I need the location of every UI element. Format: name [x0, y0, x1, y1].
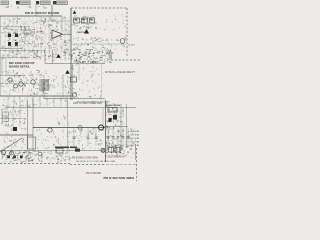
- svg-text:PW IF SECTION 4WD3: PW IF SECTION 4WD3: [104, 176, 135, 180]
- electrolytic capacitor C12: [15, 34, 18, 38]
- bottom cluster left: [1, 150, 37, 163]
- dark blob row 1: [7, 156, 10, 159]
- dashed separator bottom center: [70, 164, 105, 166]
- svg-text:L601 4WD3 TUNER B+ ADJ C60: L601 4WD3 TUNER B+ ADJ C605: [76, 101, 110, 104]
- svg-text:C602 10M: C602 10M: [130, 131, 140, 133]
- transistor Q12: [19, 82, 23, 86]
- svg-text:TP601 ADJ 10.7 MHZ IF: TP601 ADJ 10.7 MHZ IF: [75, 61, 99, 64]
- svg-text:C632 10M: C632 10M: [130, 142, 140, 144]
- svg-text:PW IF CIRCUIT BOARD: PW IF CIRCUIT BOARD: [25, 11, 60, 15]
- transistor Q31: [10, 151, 14, 155]
- paper grain speckle: [0, 0, 139, 199]
- wire vertical x63 low: [62, 75, 64, 98]
- wire horizontal y75: [0, 75, 25, 77]
- wire horizontal y107: [5, 107, 136, 109]
- box R1: [109, 148, 114, 153]
- thermistor RT901 blob: [75, 149, 80, 152]
- IC block box: [24, 30, 31, 34]
- connector header box CN1: [1, 1, 9, 5]
- motor M1 circle: [2, 151, 6, 155]
- wire vertical x44 low: [43, 75, 45, 96]
- section border wire x=71: [70, 8, 72, 100]
- choke coil dark blob: [13, 127, 17, 131]
- wire horizontal y98.5: [44, 96, 105, 99]
- part number text row right column: [106, 104, 121, 107]
- connector ring J2: [99, 125, 104, 130]
- warning triangle 4: [65, 70, 69, 74]
- wire horizontal y57.5: [0, 57, 30, 59]
- caption text small right: [105, 156, 125, 159]
- transistor Q14b: [14, 84, 18, 88]
- warning triangle 2: [84, 29, 89, 34]
- svg-text:CAUTION: CAUTION: [77, 31, 87, 34]
- text area clearing: [8, 60, 39, 69]
- right border vertical solid: [135, 144, 137, 160]
- wire horizontal y50.5: [0, 50, 44, 52]
- sparse cluster left mid-band: [1, 100, 26, 133]
- transistor Q11: [8, 78, 12, 82]
- board title text PW IF CIRCUIT BOARD: [25, 11, 60, 15]
- caption text small left: [72, 157, 99, 160]
- wire horizontal y63: [45, 63, 105, 65]
- transistor Q3: [120, 39, 125, 44]
- sparse cluster right-center low: [71, 64, 104, 99]
- wire op-amp output: [63, 33, 72, 35]
- dark dash component 1: [55, 147, 69, 149]
- main signal wire y127.5: [33, 127, 105, 129]
- annotation text line 1: [9, 61, 35, 65]
- op-amp U1: [52, 30, 63, 39]
- drop wires below main line: [74, 128, 96, 146]
- sparse cluster center low: [48, 75, 71, 95]
- title text PW IF SECTION 4WD3: [104, 176, 135, 180]
- caution text smudge: [77, 31, 87, 34]
- electrolytic capacitor C11: [8, 34, 11, 38]
- tiny text above mid line: [73, 103, 103, 105]
- bottom long wire left: [0, 150, 70, 152]
- component cluster right-top sparse: [97, 15, 126, 31]
- dashed section boundary top: [71, 7, 127, 9]
- test point text row: [75, 61, 99, 64]
- transformer hatched block: [40, 79, 48, 91]
- left board edge wire: [0, 16, 2, 96]
- dark dash component 2: [70, 147, 77, 149]
- transistor Q21: [48, 128, 52, 132]
- svg-text:NOTE: B+ LINE ADJ REF PT: NOTE: B+ LINE ADJ REF PT: [105, 71, 136, 74]
- svg-text:+B 12V: +B 12V: [128, 45, 136, 47]
- capacitor plate marks: [107, 137, 130, 139]
- drop wires y96-107: [8, 97, 67, 108]
- diagonal wire bottom-left: [0, 138, 22, 152]
- svg-text:BOARD DETAIL: BOARD DETAIL: [9, 64, 30, 68]
- component cluster mid dense: [71, 49, 112, 64]
- svg-text:C612 10M: C612 10M: [130, 135, 140, 137]
- wire vertical x62 into op-amp: [61, 16, 63, 30]
- caption text mid right: [86, 172, 102, 175]
- right column inner wire: [120, 104, 122, 150]
- small boxes left column: [3, 112, 9, 122]
- label column right edge: [130, 131, 140, 147]
- IF transformer box T1: [74, 18, 95, 23]
- wire horizontal y44 right section: [72, 43, 126, 45]
- component band y96-107: [3, 97, 70, 108]
- capacitor plates below main line: [73, 137, 98, 139]
- wire horizontal y135: [0, 134, 33, 136]
- transistor Q14: [72, 93, 76, 97]
- wire verticals left column: [28, 100, 34, 150]
- svg-text:IC601 LA1266: IC601 LA1266: [106, 104, 121, 107]
- wire horizontal y26.5: [0, 26, 30, 28]
- dashed section boundary right vertical: [126, 8, 128, 57]
- annotation text line 2: [9, 64, 30, 68]
- wire vertical x103: [102, 108, 104, 127]
- IC box right column: [108, 108, 117, 113]
- dark blob row 2: [13, 156, 16, 159]
- dashed separator bottom left: [0, 163, 70, 165]
- wire verticals left low: [2, 58, 6, 75]
- bus wire vertical x=36: [35, 4, 37, 16]
- bottom-left sub cluster: [3, 136, 26, 150]
- dashed section boundary mid right: [111, 59, 140, 61]
- component cluster right small: [105, 50, 113, 63]
- wire verticals right section low: [73, 64, 80, 100]
- component cluster left band y49-60: [2, 48, 71, 60]
- component cluster below top rail: [1, 16, 68, 26]
- lamp PL1 crossed circle: [101, 148, 105, 152]
- svg-text:PB BOARD CONN VIEW: PB BOARD CONN VIEW: [72, 157, 99, 160]
- wire horizontal y118.5 left: [0, 118, 26, 120]
- wire columns left board: [5, 17, 69, 59]
- bottom wire y150.5: [70, 150, 101, 152]
- connector header box CN2: [16, 1, 30, 5]
- marks near x58-70 y120-127: [57, 115, 70, 127]
- wire verticals x45 x52: [45, 50, 53, 64]
- svg-text:MIL SPEC IF CCT LNE CAL 4WD PL: MIL SPEC IF CCT LNE CAL 4WD PLAN: [76, 160, 116, 163]
- pointer diagonal wire: [92, 38, 100, 44]
- connector header box CN3: [36, 1, 50, 5]
- left column components y108-126: [1, 108, 25, 126]
- wire horizontal y21: [38, 20, 70, 22]
- box R2: [115, 148, 120, 153]
- dark component blob 2: [109, 118, 112, 122]
- wire horizontal y126 right: [103, 126, 128, 128]
- component cluster mid-band lower: [35, 128, 104, 149]
- wire horizontal y83.5: [0, 83, 38, 85]
- box B5: [56, 149, 63, 154]
- separator line bottom right: [106, 164, 136, 166]
- component cluster right mid band: [73, 37, 126, 50]
- transistor Q32: [38, 152, 42, 156]
- left column drop wires y108-127: [6, 108, 20, 127]
- top rail wire: [0, 15, 62, 17]
- bus wire vertical x=52: [51, 5, 53, 16]
- box lower-left: [28, 137, 36, 149]
- wire vertical x67.5 mid: [67, 100, 69, 150]
- warning triangle 3: [56, 54, 60, 58]
- electrolytic capacitor C13: [8, 42, 11, 46]
- dashed vertical bottom right: [136, 148, 138, 181]
- svg-text:C642 10M: C642 10M: [130, 145, 140, 147]
- caption text row 2: [76, 160, 116, 163]
- transistor cluster left: [1, 70, 50, 96]
- transistor Q13: [31, 80, 35, 84]
- label text row top: [76, 101, 110, 104]
- wire stubs from headers: [6, 5, 47, 8]
- dark component blob 1: [113, 115, 117, 120]
- dark blob row 3: [20, 156, 23, 159]
- bottom cluster center-left: [25, 150, 71, 163]
- svg-text:C622 10M: C622 10M: [130, 138, 140, 140]
- component cluster center upper: [35, 26, 70, 49]
- right column inner wire 2: [126, 104, 128, 148]
- cap drop wires right column: [108, 128, 128, 147]
- wire horizontal y48.5: [0, 48, 22, 50]
- wire vertical x101.5: [101, 64, 103, 100]
- paper background: [0, 0, 140, 200]
- svg-text:IF SECTION PLAN: IF SECTION PLAN: [105, 156, 125, 159]
- warning triangle 1: [73, 11, 77, 14]
- relay box K1: [71, 77, 77, 82]
- bottom cluster right: [107, 145, 133, 158]
- light cluster right of column: [125, 128, 136, 148]
- dense cluster right column: [105, 103, 124, 150]
- connector header box CN4: [53, 1, 67, 5]
- svg-text:PW IF BOARD: PW IF BOARD: [86, 172, 102, 175]
- electrolytic capacitor C14: [15, 42, 18, 46]
- inductor L2 circle: [78, 126, 82, 130]
- note text right: [105, 71, 136, 74]
- comb verticals bottom right: [106, 145, 121, 154]
- voltage label text right of Q3: [128, 45, 136, 47]
- component cluster left mid rows: [1, 26, 36, 50]
- right column border wire: [105, 100, 107, 162]
- wire horizontal y96 board bottom: [0, 95, 71, 97]
- component cluster right-top dense: [72, 15, 97, 29]
